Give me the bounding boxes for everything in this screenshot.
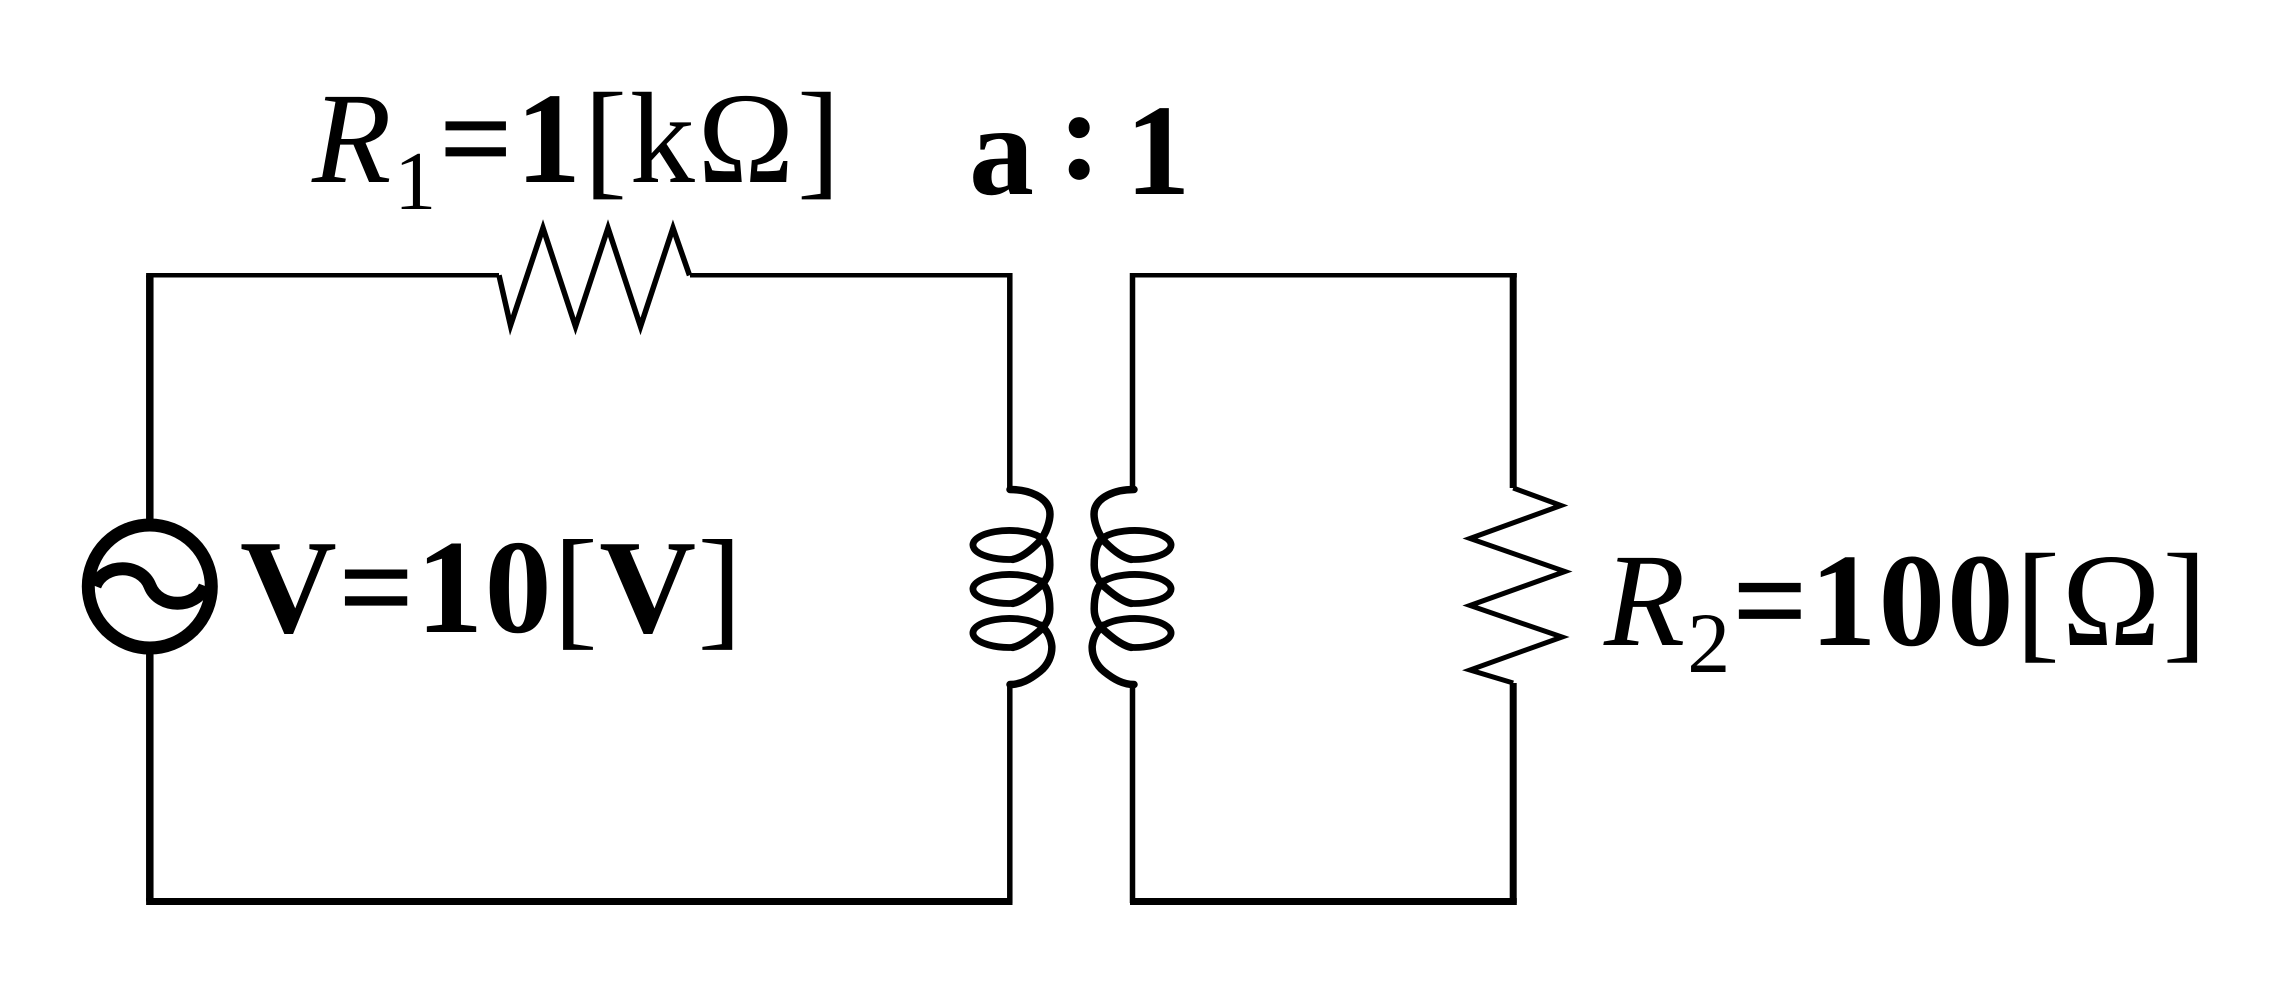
wire: primary loop left vertical (bottom part, source to bottom wire)	[146, 654, 154, 902]
wire: secondary top horizontal	[1130, 273, 1517, 278]
secondary coil turn 1 ellipse arc	[1104, 530, 1171, 559]
secondary coil top hook arc	[1094, 490, 1134, 560]
svg-text:V=10[V]: V=10[V]	[240, 513, 744, 661]
wire: secondary loop left vertical upper	[1130, 273, 1136, 490]
wire: primary top horizontal, left of R1	[146, 273, 499, 278]
secondary coil turn 3 ellipse arc	[1104, 618, 1171, 647]
primary coil turn 2 ellipse arc	[973, 574, 1040, 603]
primary coil bulge 1-2	[1013, 537, 1050, 603]
wire: secondary loop left vertical lower	[1130, 684, 1136, 903]
transformer primary coil L1	[973, 490, 1052, 685]
primary coil bulge 2-3	[1013, 581, 1050, 647]
wire: primary right vertical lower	[1007, 684, 1013, 903]
wire: secondary right vertical lower	[1510, 683, 1517, 903]
secondary coil bottom hook arc	[1092, 625, 1134, 684]
svg-text:a : 1: a : 1	[969, 63, 1189, 223]
transformer secondary coil L2 (mirror of primary)	[1092, 490, 1171, 685]
secondary coil bulge 1-2	[1094, 537, 1131, 603]
wire: primary top horizontal, right of R1	[690, 273, 1012, 278]
svg-text:R1=1[kΩ]: R1=1[kΩ]	[311, 67, 843, 228]
resistor R2 zigzag	[1470, 488, 1565, 683]
resistor R1 zigzag	[499, 228, 690, 327]
primary coil turn 1 ellipse arc	[973, 530, 1040, 559]
primary coil top hook arc	[1010, 490, 1050, 560]
wire: primary loop left vertical (top part, source to top wire)	[146, 275, 154, 519]
primary coil bottom hook arc	[1010, 625, 1052, 684]
AC source sine wave	[95, 569, 205, 604]
AC source V1 circle	[88, 525, 211, 648]
primary coil turn 3 ellipse arc	[973, 618, 1040, 647]
wire: primary bottom horizontal	[146, 898, 1012, 905]
secondary coil bulge 2-3	[1094, 581, 1131, 647]
secondary coil turn 2 ellipse arc	[1104, 574, 1171, 603]
wire: secondary right vertical upper (to R2)	[1510, 273, 1517, 488]
wire: secondary bottom horizontal	[1130, 898, 1517, 905]
wire: primary right vertical upper (to transformer primary)	[1007, 273, 1013, 490]
